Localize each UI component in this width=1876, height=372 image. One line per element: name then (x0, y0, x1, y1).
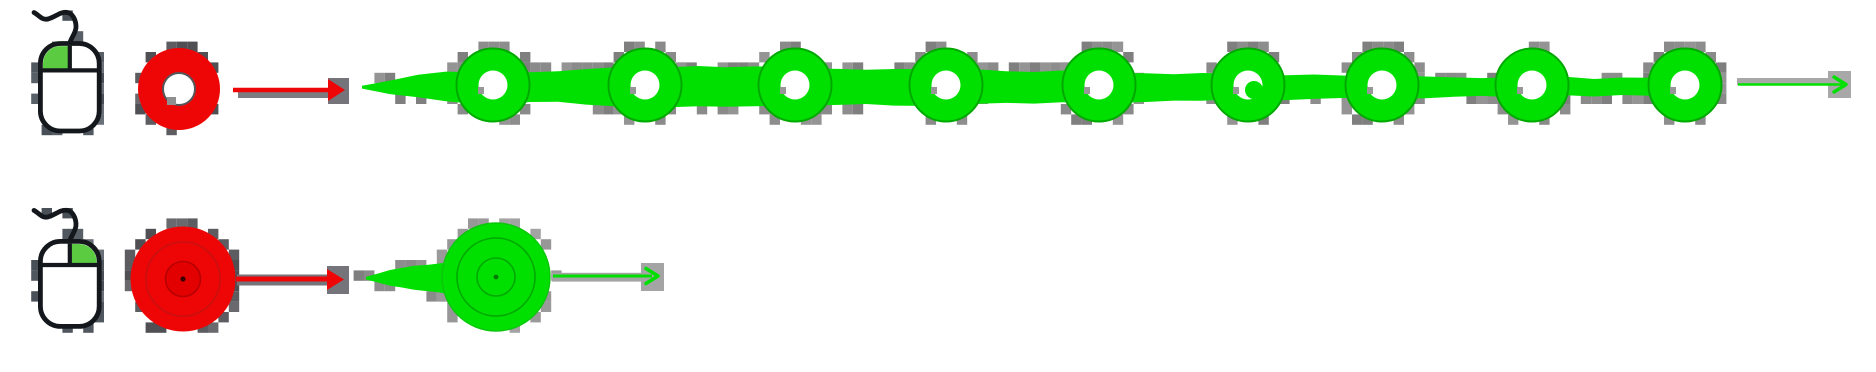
green event donut 9 row 1 (1649, 49, 1722, 122)
mouse icon (left button click) row 1 (31, 10, 104, 135)
red event donut row 1 (135, 42, 218, 136)
green event donut 5 row 1 (1063, 49, 1136, 122)
green single-event blob row 2 (354, 218, 562, 332)
green thin arrow row 2 (552, 263, 664, 291)
green event donut 6 row 1 (1212, 49, 1285, 122)
red arrow row 2 (236, 266, 349, 294)
green thin arrow row 1 (1737, 71, 1851, 98)
green event donut 8 row 1 (1496, 49, 1569, 122)
big red click circle row 2 (125, 218, 239, 332)
green event donut 3 row 1 (759, 49, 832, 122)
mouse icon (right button click) row 2 (31, 208, 104, 333)
green event donut 1 row 1 (457, 49, 530, 122)
green event donut 4 row 1 (910, 49, 983, 122)
red arrow row 1 (233, 78, 349, 104)
green repeated-event band row 1 (362, 66, 1678, 107)
gray artifact fringe of band and donuts row 1 (374, 42, 1726, 125)
green event donut 7 row 1 (1346, 49, 1419, 122)
green event donut 2 row 1 (609, 49, 682, 122)
